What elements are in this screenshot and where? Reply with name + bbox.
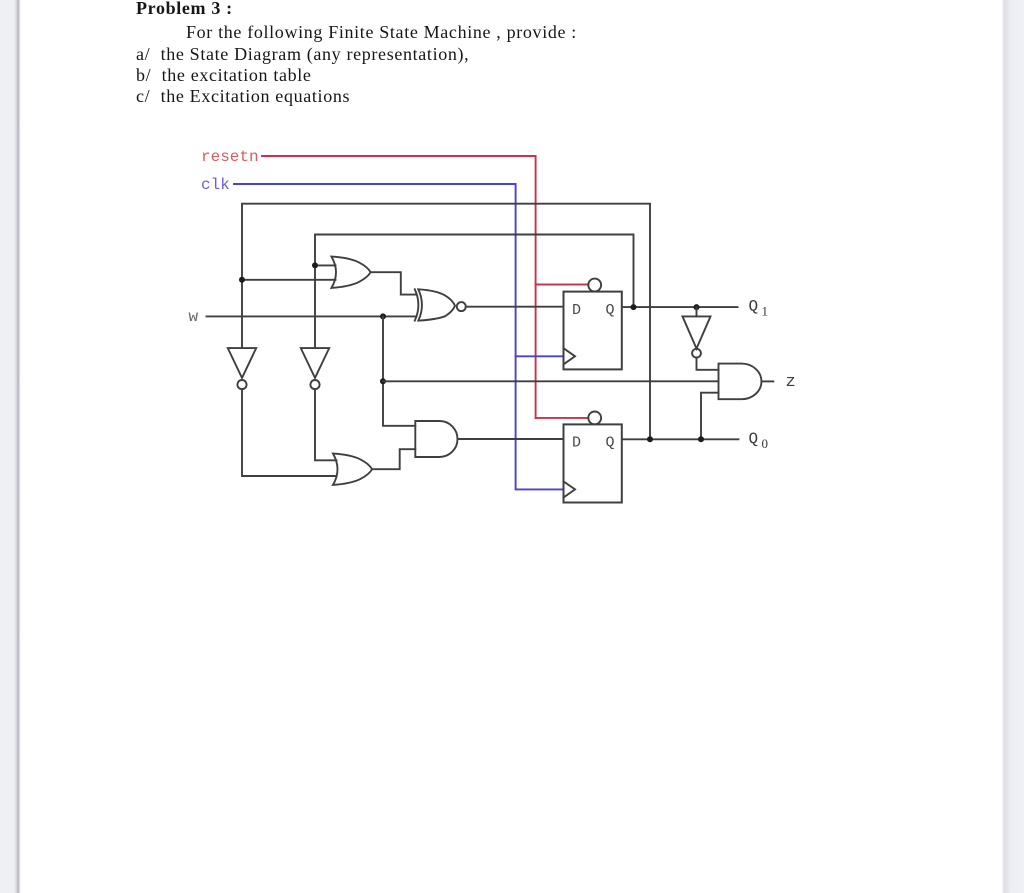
inverter U8 bubble bbox=[237, 380, 246, 389]
svg-text:z: z bbox=[786, 373, 796, 392]
net clk label bbox=[201, 176, 230, 194]
node B junction on Q1 column bbox=[312, 262, 318, 268]
d-flip-flop U1 box bbox=[564, 292, 622, 370]
and-gate U5 bbox=[415, 421, 457, 457]
wire z output bbox=[762, 380, 774, 382]
node A junction on Q0 column bbox=[239, 277, 245, 283]
node Q0b junction to AND U7 branch bbox=[698, 436, 704, 442]
svg-text:resetn: resetn bbox=[201, 148, 259, 166]
wire OR U9 output jog to AND U5 bottom input bbox=[372, 449, 415, 469]
wire OR U3 output jog to XNOR U4 top input bbox=[371, 272, 417, 294]
net Q1 label bbox=[749, 298, 769, 319]
d-flip-flop U2 clock triangle bbox=[564, 481, 576, 497]
xnor-gate U4 input arc bbox=[415, 289, 419, 320]
net z label bbox=[786, 373, 796, 392]
wire Q1 output line bbox=[622, 306, 738, 308]
d-flip-flop U1 Q pin label bbox=[606, 302, 615, 319]
node Q1b junction to inverter U6 bbox=[694, 304, 700, 310]
svg-text:1: 1 bbox=[762, 304, 769, 319]
wire inverter U6 output to AND U7 top input bbox=[697, 358, 719, 370]
d-flip-flop U2 reset bubble bbox=[588, 412, 601, 425]
wire inverter U8 output to OR U9 lower input bbox=[242, 389, 337, 476]
or-gate U3 bbox=[332, 257, 371, 288]
inverter U6 bubble bbox=[692, 349, 701, 358]
net resetn label bbox=[201, 148, 259, 166]
net w label bbox=[189, 308, 199, 326]
or-gate U9 bbox=[333, 454, 372, 485]
wire Q0 feedback loop (outer) bbox=[242, 204, 650, 440]
left gray margin band bbox=[0, 0, 22, 893]
inverter U6 triangle bbox=[683, 316, 711, 348]
and-gate U7 bbox=[719, 364, 762, 400]
net Q0 label bbox=[749, 430, 769, 451]
svg-text:w: w bbox=[189, 308, 199, 326]
wire w input line to XNOR U4 bottom input bbox=[207, 315, 417, 317]
svg-text:Q: Q bbox=[749, 298, 759, 316]
wire from node D to AND U7 middle input bbox=[383, 380, 719, 382]
wire from node A to OR U3 lower input bbox=[242, 279, 336, 281]
wire AND U5 output to FF U2 D input bbox=[458, 438, 564, 440]
xnor-gate U4 output bubble bbox=[457, 302, 466, 311]
node Q1a junction to inner loop bbox=[631, 304, 637, 310]
d-flip-flop U1 D pin label bbox=[572, 302, 581, 319]
svg-text:D: D bbox=[572, 302, 581, 319]
wire from node B to OR U3 upper input bbox=[315, 264, 336, 266]
node C junction of w line and branch bbox=[380, 313, 386, 319]
svg-text:clk: clk bbox=[201, 176, 230, 194]
problem statement text bbox=[136, 0, 233, 19]
wire XNOR U4 output to FF U1 D input bbox=[466, 306, 564, 308]
wire Q1 feedback loop (inner) bbox=[315, 235, 634, 349]
inverter U10 bubble bbox=[310, 380, 319, 389]
wire clk branch to FF U1 clock bbox=[516, 355, 564, 357]
wire resetn branch to FF U2 reset bubble bbox=[536, 417, 589, 419]
wire resetn branch to FF U1 reset bubble bbox=[536, 284, 589, 286]
svg-text:D: D bbox=[572, 435, 581, 452]
d-flip-flop U2 box bbox=[564, 424, 622, 502]
inverter U6 input stub bbox=[696, 307, 698, 316]
d-flip-flop U1 reset bubble bbox=[588, 279, 601, 292]
wire AND U7 bottom input from Q0 line bbox=[701, 393, 719, 440]
right gray margin band bbox=[1000, 0, 1024, 893]
d-flip-flop U1 clock triangle bbox=[564, 348, 576, 364]
svg-text:Q: Q bbox=[606, 302, 615, 319]
inverter U10 (on Q1 column) triangle bbox=[301, 348, 329, 378]
inverter U8 (on Q0 column) triangle bbox=[228, 348, 256, 378]
svg-text:Q: Q bbox=[606, 435, 615, 452]
wire inverter U10 output to OR U9 upper input bbox=[315, 389, 337, 460]
wire Q0 output line bbox=[622, 438, 739, 440]
d-flip-flop U2 Q pin label bbox=[606, 435, 615, 452]
svg-text:0: 0 bbox=[762, 436, 769, 451]
d-flip-flop U2 D pin label bbox=[572, 435, 581, 452]
svg-text:Q: Q bbox=[749, 430, 759, 448]
wire w branch down to AND U5 top input bbox=[383, 316, 415, 425]
wire resetn horizontal+vertical bbox=[262, 156, 536, 418]
wire clk horizontal+vertical to FF U2 clock bbox=[234, 184, 564, 489]
node D junction on w branch bbox=[380, 378, 386, 384]
xnor-gate U4 body bbox=[418, 289, 455, 320]
node Q0a junction to outer loop bbox=[647, 436, 653, 442]
